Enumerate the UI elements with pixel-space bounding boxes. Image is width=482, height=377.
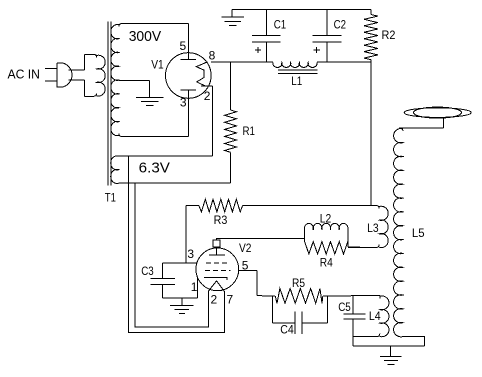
svg-text:L2: L2 — [320, 212, 332, 226]
svg-text:5: 5 — [242, 259, 249, 273]
svg-text:1: 1 — [191, 280, 198, 294]
svg-text:C2: C2 — [334, 18, 347, 32]
svg-text:V2: V2 — [239, 241, 252, 255]
svg-text:T1: T1 — [105, 191, 116, 205]
svg-text:2: 2 — [211, 292, 218, 306]
svg-text:6.3V: 6.3V — [139, 159, 170, 176]
svg-text:C5: C5 — [338, 300, 351, 314]
svg-text:5: 5 — [180, 39, 187, 53]
svg-text:L1: L1 — [291, 74, 302, 88]
svg-text:C1: C1 — [274, 18, 287, 32]
svg-text:C4: C4 — [280, 323, 294, 337]
svg-text:L5: L5 — [412, 226, 425, 240]
svg-text:3: 3 — [187, 247, 194, 261]
svg-text:R5: R5 — [292, 276, 305, 290]
svg-text:AC IN: AC IN — [8, 66, 40, 81]
svg-text:300V: 300V — [129, 28, 162, 45]
svg-text:7: 7 — [227, 292, 234, 306]
svg-text:L3: L3 — [367, 221, 379, 235]
svg-text:R1: R1 — [243, 124, 256, 138]
svg-text:R2: R2 — [382, 28, 396, 42]
svg-text:2: 2 — [204, 89, 211, 103]
svg-text:R4: R4 — [320, 256, 333, 270]
svg-text:V1: V1 — [151, 58, 164, 72]
svg-text:8: 8 — [209, 48, 216, 62]
svg-text:3: 3 — [180, 96, 187, 110]
svg-text:C3: C3 — [141, 264, 154, 278]
svg-text:L4: L4 — [369, 309, 381, 323]
svg-text:R3: R3 — [214, 213, 228, 227]
